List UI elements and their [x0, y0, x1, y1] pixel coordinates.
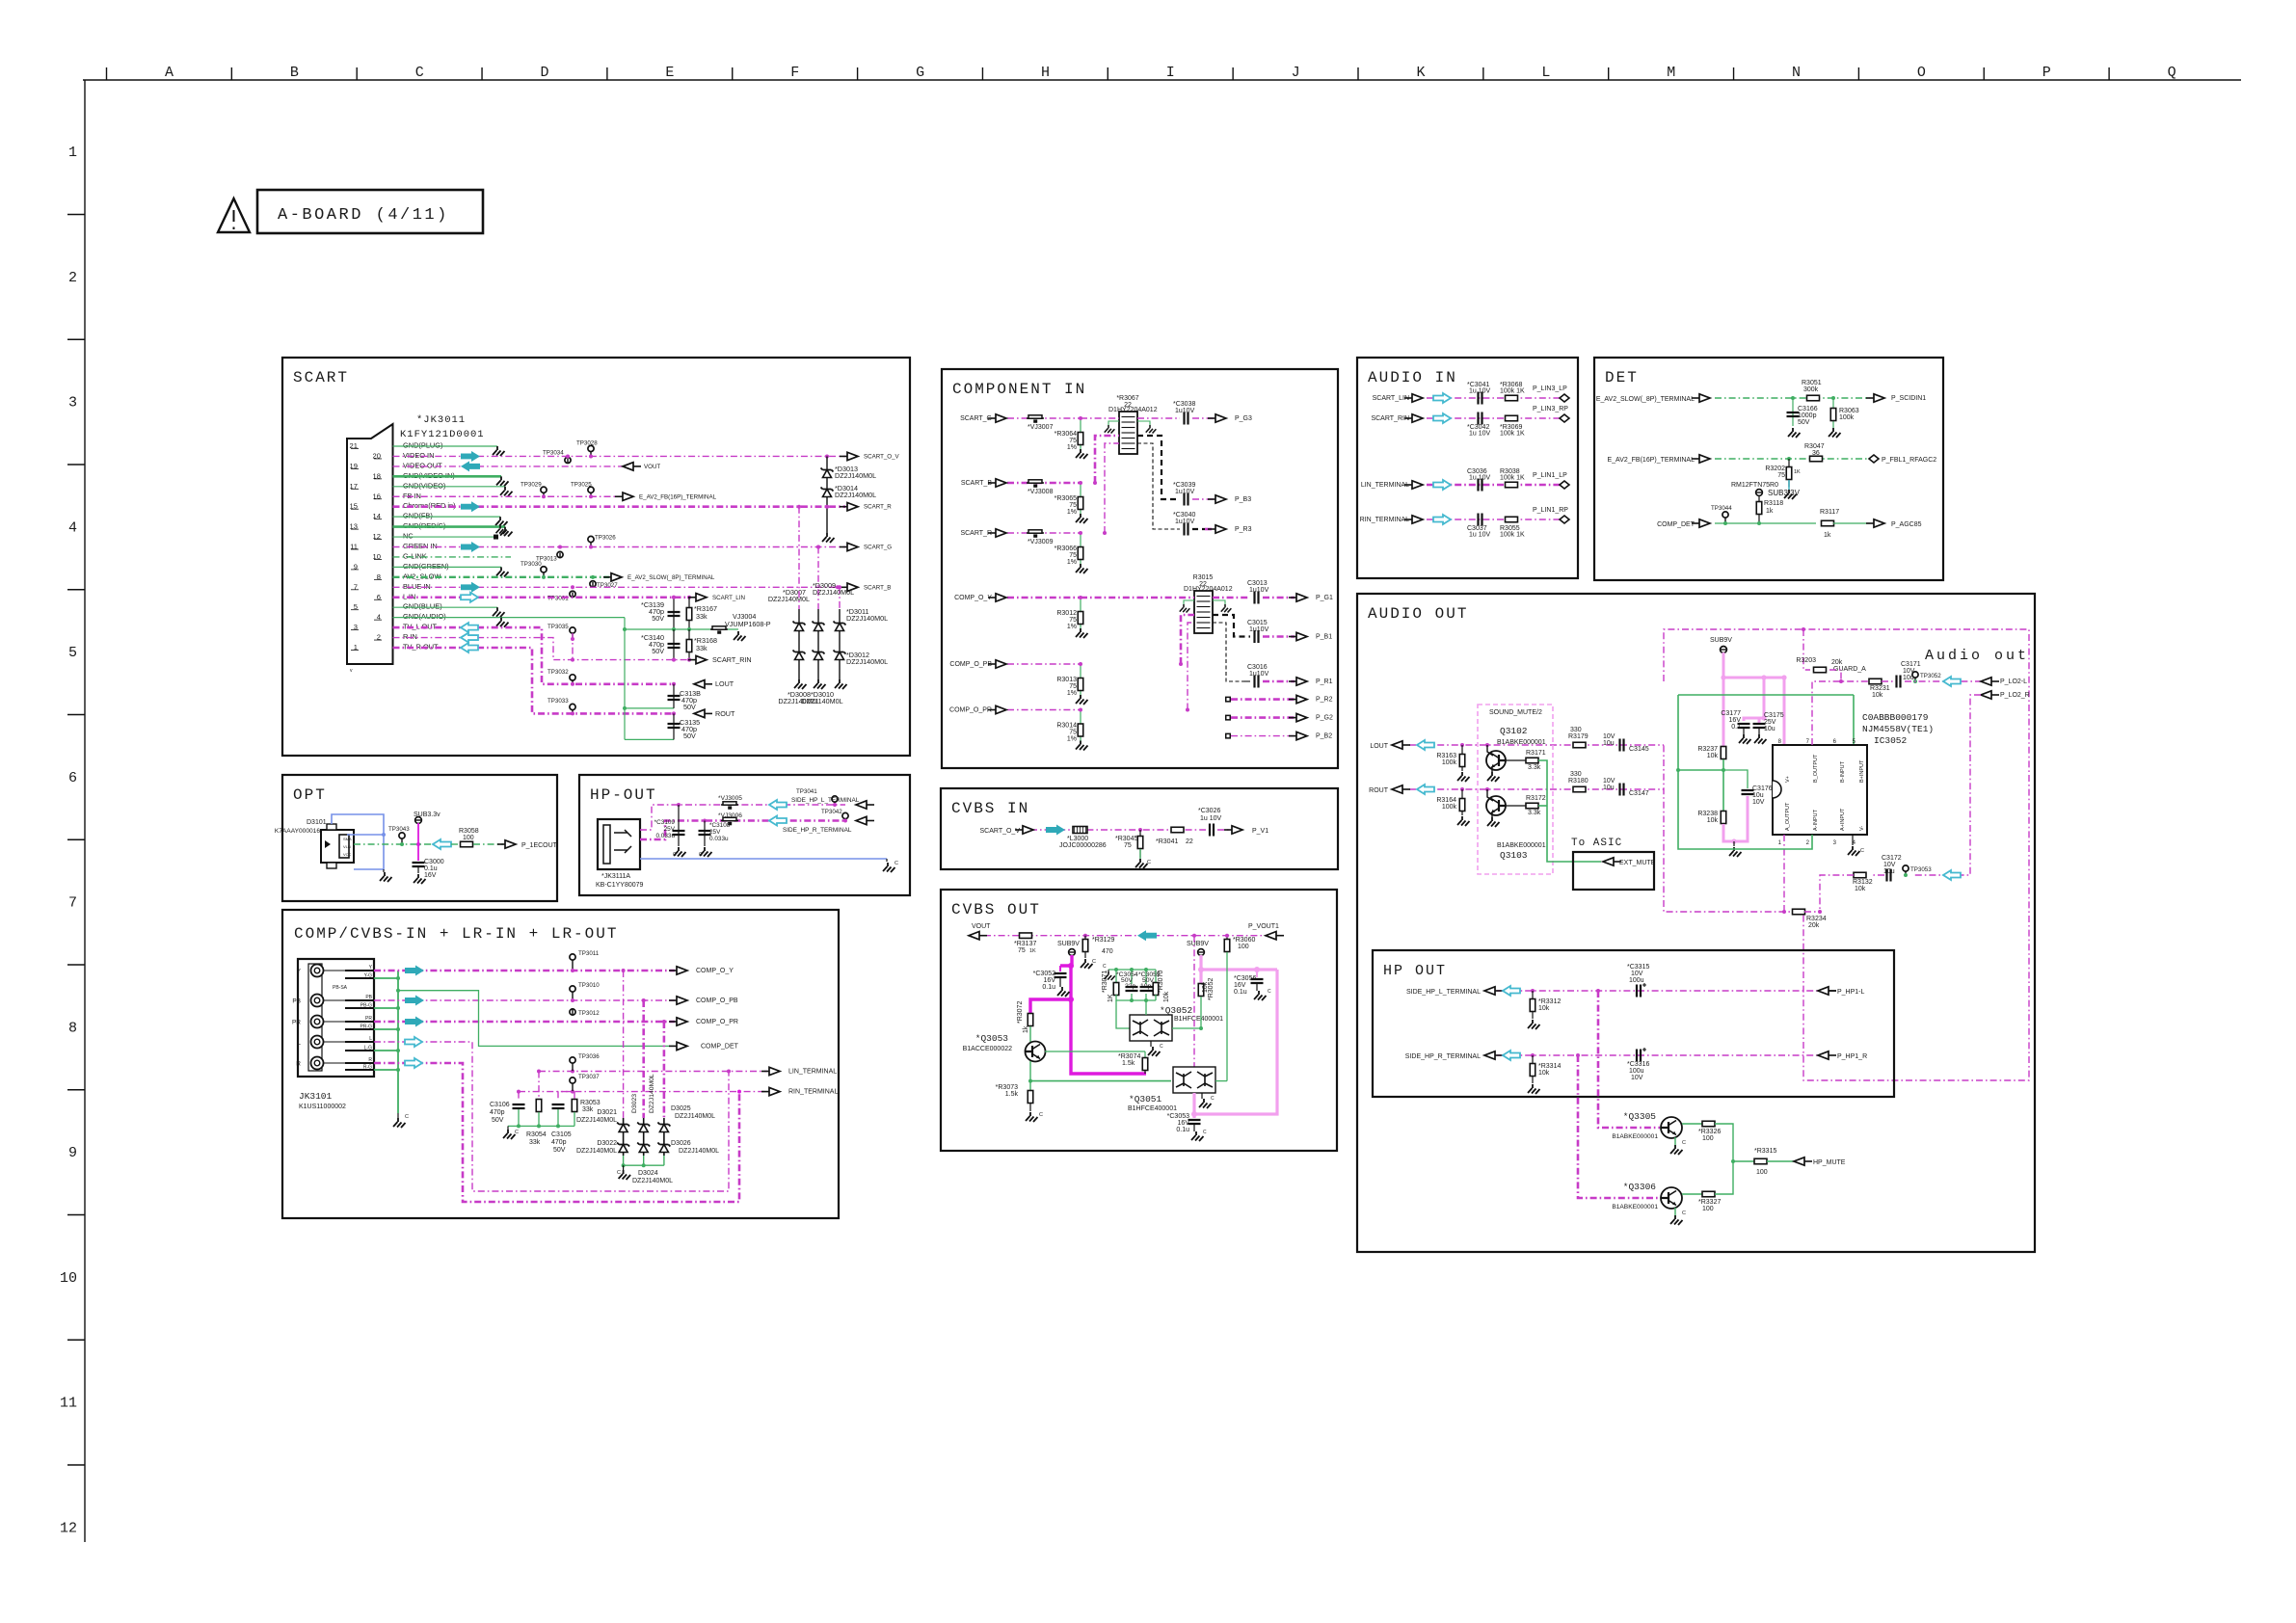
svg-text:R3238: R3238: [1697, 811, 1718, 817]
svg-text:TP3041: TP3041: [796, 788, 817, 795]
svg-text:P_B3: P_B3: [1235, 496, 1251, 503]
svg-text:JOJC00000286: JOJC00000286: [1059, 842, 1107, 849]
svg-text:B+INPUT: B+INPUT: [1859, 759, 1865, 783]
blue wire HP-OUT ground: [640, 858, 887, 860]
svg-text:TP3037: TP3037: [578, 1074, 600, 1080]
svg-text:P_G2: P_G2: [1316, 715, 1333, 722]
wire SCART_R input row: [1007, 532, 1081, 534]
jumper VJ3008: [1027, 482, 1044, 484]
svg-text:R3015: R3015: [1193, 574, 1214, 581]
RCA jack PB: [311, 995, 324, 1007]
svg-text:COMP_DET: COMP_DET: [701, 1043, 739, 1050]
wire COMP_DET row green: [1715, 522, 1816, 524]
open arrow LIN_TERMINAL: [1433, 480, 1451, 490]
wire PB row to COMP_O_PB: [374, 999, 675, 1001]
net stub P_B2: [1225, 733, 1231, 739]
capacitor C3140 470p 50V: [673, 629, 675, 660]
node EXT_MUTE: [1614, 861, 1621, 863]
COMP/CVBS-IN + LR-IN + LR-OUT section box: [282, 910, 839, 1218]
node RIN_TERMINAL: [761, 1091, 769, 1093]
node P_VOUT1: [1276, 935, 1284, 937]
svg-text:33k: 33k: [696, 612, 707, 621]
green audio ground rail in SCART: [624, 618, 626, 740]
svg-text:1k: 1k: [1766, 508, 1774, 515]
svg-text:SUB9V: SUB9V: [1710, 637, 1732, 644]
wire SCART_G drop to D3009: [817, 547, 819, 610]
ground R3314: [1528, 1084, 1540, 1094]
resistor R3070 10k: [1153, 983, 1159, 996]
svg-text:*R3071: *R3071: [1102, 971, 1108, 993]
svg-text:75: 75: [1124, 842, 1132, 849]
magenta wire SUB3.3V to C3000: [417, 823, 419, 861]
capacitor C3176 10u 10V: [1723, 770, 1748, 788]
node LIN_TERMINAL: [761, 1071, 769, 1073]
wire P_VOUT1 branch: [1194, 935, 1266, 937]
svg-text:75: 75: [1069, 683, 1077, 690]
svg-text:DZ2J140M0L: DZ2J140M0L: [632, 1178, 673, 1184]
test point TP3026: [588, 536, 594, 542]
wire pin8 AV2_SLOW green bold dash: [393, 576, 610, 578]
ground Q3306 emitter: [1674, 1208, 1676, 1215]
svg-text:ROUT: ROUT: [715, 709, 735, 718]
wire pin10 G-LINK green dash: [393, 556, 512, 558]
jumper VJ3004 VJUMP1608-P: [710, 628, 728, 630]
svg-text:75: 75: [1069, 438, 1077, 444]
svg-text:SCART_O_V: SCART_O_V: [864, 453, 900, 460]
border ruler top line: [83, 79, 2241, 81]
svg-text:*JK3011: *JK3011: [416, 414, 466, 426]
wire PB drop to D3023 bold: [642, 1000, 645, 1118]
wire SCART_LIN row: [1427, 397, 1562, 399]
svg-text:100u: 100u: [1629, 1068, 1644, 1075]
svg-text:DZ2J140M0L: DZ2J140M0L: [835, 471, 876, 480]
pink supply rail from SUB9V: [1723, 652, 1784, 745]
node P_B3: [1208, 498, 1215, 500]
svg-text:470: 470: [1102, 948, 1113, 955]
svg-text:1u 10V: 1u 10V: [1200, 815, 1222, 822]
ground R3163: [1457, 772, 1470, 782]
open arrow HP L: [1503, 986, 1520, 996]
wire HP R mute drop to Q3306: [1578, 1055, 1660, 1198]
wire P_LO2_R down to TP3053 row: [1914, 695, 1981, 875]
svg-text:C3177: C3177: [1721, 710, 1741, 717]
svg-text:A+INPUT: A+INPUT: [1840, 808, 1846, 831]
resistor R3045 75: [1138, 828, 1142, 832]
node P_LO2-L: [1991, 680, 1999, 682]
svg-text:SCART_G: SCART_G: [864, 545, 892, 551]
capacitor C3055 10p 50V: [1140, 987, 1153, 991]
svg-text:*R3073: *R3073: [996, 1084, 1018, 1091]
open arrow TP3053 row: [1943, 870, 1961, 880]
capacitor C3171 10u 10V: [1882, 680, 1894, 682]
svg-text:C3176: C3176: [1752, 785, 1773, 792]
wire R3315 to HP_MUTE: [1767, 1160, 1794, 1162]
resistor R3164 100k: [1460, 787, 1464, 791]
svg-text:330: 330: [1570, 771, 1582, 778]
wire C3026 to P_V1: [1217, 829, 1230, 831]
resistor R3327 100: [1682, 1193, 1702, 1195]
svg-text:*R3327: *R3327: [1698, 1199, 1721, 1206]
green loop to Q3052 base: [1116, 1000, 1130, 1028]
svg-text:1K: 1K: [1108, 994, 1114, 1002]
ground R3129: [1081, 959, 1093, 969]
jack signal pin names: [360, 965, 373, 1071]
svg-text:1u 10V: 1u 10V: [1469, 475, 1491, 482]
svg-text:*C3109: *C3109: [654, 819, 676, 826]
capacitor C3166 1000p 50V: [1792, 398, 1794, 426]
svg-text:BLUE IN: BLUE IN: [403, 582, 431, 591]
svg-text:To ASIC: To ASIC: [1571, 838, 1622, 849]
test point TP3041: [832, 796, 838, 802]
resistor R3065 75 1%: [1080, 483, 1081, 514]
svg-text:33k: 33k: [696, 644, 707, 652]
svg-text:R3012: R3012: [1056, 610, 1077, 617]
svg-text:SCART_LIN: SCART_LIN: [712, 595, 745, 601]
svg-text:DET: DET: [1605, 369, 1639, 386]
svg-text:TP3029: TP3029: [521, 481, 542, 488]
svg-text:C: C: [1203, 1130, 1207, 1135]
svg-text:GND(VIDEO): GND(VIDEO): [403, 481, 445, 490]
resistor *R3068 100k 1K: [1506, 395, 1518, 401]
svg-text:SCART_LIN: SCART_LIN: [1373, 395, 1409, 402]
svg-text:C: C: [894, 861, 898, 866]
wire Q3052 right pin to R3052 column: [1172, 1027, 1201, 1029]
svg-text:10V: 10V: [1603, 733, 1615, 740]
svg-text:1u10V: 1u10V: [1175, 489, 1195, 495]
svg-text:1u10V: 1u10V: [1249, 587, 1269, 594]
svg-text:*R3045: *R3045: [1115, 836, 1137, 842]
resistor R3052 10k: [1198, 984, 1204, 997]
wire pin20 VIDEO IN (SCART_O_V): [393, 455, 846, 457]
wire PR row to COMP_O_PR: [374, 1021, 675, 1024]
svg-text:C3145: C3145: [1629, 746, 1649, 753]
node P_V1: [1224, 829, 1232, 831]
wire pin7 BLUE IN (SCART_B): [393, 586, 846, 588]
wire R3015 to C3013 bold: [1213, 597, 1250, 599]
svg-text:R3203: R3203: [1796, 657, 1816, 664]
svg-text:COMP/CVBS-IN + LR-IN + LR-OUT: COMP/CVBS-IN + LR-IN + LR-OUT: [294, 925, 618, 943]
ground R3073: [1029, 1104, 1031, 1111]
svg-text:25V: 25V: [664, 826, 676, 833]
open arrow L: [405, 1037, 422, 1047]
svg-text:16V: 16V: [1044, 977, 1056, 984]
svg-text:100: 100: [1702, 1135, 1714, 1142]
svg-text:HP-OUT: HP-OUT: [590, 786, 657, 804]
wire R3072 to Q3053 base: [1029, 1026, 1031, 1042]
svg-text:AUDIO OUT: AUDIO OUT: [1368, 605, 1468, 623]
ground *D3007 column: [794, 679, 807, 689]
svg-text:A-INPUT: A-INPUT: [1813, 809, 1819, 831]
wire ROUT row: [1409, 788, 1664, 790]
svg-text:1%: 1%: [1067, 509, 1077, 516]
svg-text:0.1u: 0.1u: [1176, 1127, 1189, 1133]
svg-text:0.1u: 0.1u: [1234, 989, 1247, 996]
resistor network R3067 22 D1HY2204A012: [1119, 412, 1137, 454]
svg-text:HP_MUTE: HP_MUTE: [1813, 1159, 1846, 1166]
resistor R3117 1k: [1822, 520, 1834, 526]
capacitor C3177 0.1 16V: [1738, 724, 1750, 728]
svg-text:COMP_O_PR: COMP_O_PR: [696, 1019, 738, 1025]
ground *D3011 column: [835, 679, 847, 689]
svg-text:50V: 50V: [1798, 419, 1810, 426]
resistor R3234 20k on guard bottom: [1793, 909, 1805, 915]
wire pin3 TV_L OUT bold to LOUT row: [393, 627, 675, 684]
wire C3015 to P_B1 bold: [1263, 635, 1295, 638]
wire SCART_B to R3067 pin bold: [1095, 436, 1119, 483]
transistor Q3102 B1ABKE000001: [1486, 751, 1506, 770]
wire SCART_B input row: [1007, 482, 1081, 485]
CVBS IN section box: [941, 788, 1338, 869]
ground R3065: [1076, 514, 1088, 523]
RCA jack block JK3101 K1US11000002: [298, 959, 374, 1077]
svg-text:LOUT: LOUT: [1370, 743, 1388, 750]
wire C3038 to P_G3: [1192, 417, 1214, 419]
ground C3175: [1758, 728, 1760, 734]
wire pin6 L IN bold (SCART_LIN): [393, 596, 688, 599]
node P_R3: [1208, 528, 1215, 530]
ground pin4: [496, 618, 509, 627]
wire pin2 A-INPUT feedback green: [1678, 770, 1812, 849]
ground Q3305 emitter: [1674, 1137, 1676, 1145]
svg-text:R3014: R3014: [1056, 723, 1077, 730]
svg-text:C: C: [1211, 1096, 1215, 1102]
power SUB9V: [1721, 647, 1727, 653]
test point TP3011: [570, 954, 575, 960]
svg-text:PB: PB: [365, 995, 372, 1000]
node P_B1: [1289, 636, 1296, 638]
svg-text:Y: Y: [297, 969, 302, 975]
svg-text:3.3k: 3.3k: [1528, 810, 1541, 816]
svg-text:DZ2J140M0L: DZ2J140M0L: [576, 1148, 617, 1155]
svg-text:C: C: [1160, 1044, 1163, 1050]
wire TP3035 junction: [572, 633, 574, 660]
diode D3013 DZ2J140M0L: [826, 456, 828, 533]
ground R3063: [1829, 428, 1841, 438]
svg-text:*C3039: *C3039: [1173, 482, 1195, 489]
test point TP3035: [570, 627, 575, 633]
svg-text:10p: 10p: [1140, 983, 1152, 990]
svg-text:NJM4558V(TE1): NJM4558V(TE1): [1862, 724, 1934, 734]
diode pair column DZ2J140M0L: [643, 1118, 645, 1156]
svg-text:*C3053: *C3053: [1167, 1113, 1189, 1120]
resistor R3315 100: [1733, 1160, 1754, 1162]
svg-text:R3053: R3053: [580, 1100, 601, 1106]
terminal P_LIN3_LP: [1560, 394, 1569, 402]
svg-text:LOUT: LOUT: [715, 679, 734, 688]
svg-text:TP3044: TP3044: [1711, 505, 1732, 512]
svg-text:R-G: R-G: [363, 1065, 372, 1071]
svg-text:SCART_RIN: SCART_RIN: [1371, 415, 1409, 422]
svg-text:100u: 100u: [1629, 977, 1644, 984]
svg-text:Q: Q: [2168, 65, 2176, 81]
resistor *R3069 100k 1K: [1506, 415, 1518, 421]
ground C3056: [1256, 983, 1258, 991]
resistor R3180 330: [1573, 786, 1586, 792]
wire OPT green dash row: [354, 843, 431, 845]
HP-OUT section box: [579, 775, 910, 895]
svg-text:470p: 470p: [490, 1109, 505, 1116]
wire HP-OUT L row: [640, 805, 845, 830]
svg-text:TP3053: TP3053: [1910, 866, 1932, 873]
node P_1ECOUT: [497, 843, 505, 845]
capacitor C3037 1u 10V: [1479, 514, 1482, 526]
IC3052 pin labels: [1778, 739, 1865, 846]
svg-text:D1HY2204A012: D1HY2204A012: [1108, 407, 1158, 413]
svg-text:COMP_O_PR: COMP_O_PR: [949, 707, 992, 714]
test point TP3027: [590, 581, 596, 587]
title box A-BOARD (4/11): [257, 190, 483, 233]
svg-text:3: 3: [68, 395, 77, 412]
svg-text:16V: 16V: [1729, 717, 1742, 724]
wire R3058 to P_1ECOUT: [473, 843, 503, 845]
resistor R3326 100: [1682, 1123, 1702, 1125]
node HP_MUTE: [1804, 1160, 1812, 1162]
teal arrow VIDEO IN: [461, 451, 480, 462]
wire Q3306 collector to mute node: [1715, 1161, 1733, 1194]
jumper VJ3007: [1027, 417, 1044, 419]
svg-text:B1HFCE400001: B1HFCE400001: [1174, 1016, 1223, 1023]
svg-text:0.1u: 0.1u: [424, 865, 438, 872]
resistor R3179 330: [1573, 742, 1586, 748]
teal arrow VIDEO OUT: [461, 461, 480, 471]
svg-text:1u 10V: 1u 10V: [1469, 532, 1491, 539]
svg-text:DZ2J140M0L: DZ2J140M0L: [835, 491, 876, 499]
ground pin5: [493, 607, 505, 617]
svg-text:O: O: [1917, 65, 1926, 81]
wire E_AV2_FB(16P)_TERMINAL row green dash: [1715, 458, 1870, 460]
svg-text:*R3066: *R3066: [1055, 545, 1077, 552]
svg-text:2: 2: [68, 270, 77, 286]
jumper VJ3006: [721, 820, 738, 822]
svg-text:10k: 10k: [1538, 1070, 1550, 1077]
AUDIO IN section box: [1357, 358, 1578, 578]
resistor R3137 75 1K: [1020, 933, 1032, 939]
svg-text:D: D: [541, 65, 549, 81]
svg-text:SCART_O_V: SCART_O_V: [980, 828, 1021, 835]
svg-text:*R3137: *R3137: [1014, 941, 1036, 947]
svg-text:TP3010: TP3010: [578, 982, 600, 989]
svg-text:IC3052: IC3052: [1874, 735, 1908, 746]
resistor R3055 100k 1K: [1506, 517, 1518, 522]
svg-text:LIN_TERMINAL: LIN_TERMINAL: [1361, 482, 1409, 489]
svg-text:10u: 10u: [1883, 868, 1895, 875]
svg-text:R3118: R3118: [1764, 500, 1783, 507]
open arrow SCART_RIN: [1433, 413, 1451, 423]
svg-text:R3047: R3047: [1804, 443, 1825, 450]
node SIDE_HP_L_TERMINAL (HP-OUT): [867, 804, 874, 806]
svg-text:COMP_O_PB: COMP_O_PB: [696, 998, 738, 1004]
node P_HP1-L: [1829, 990, 1836, 992]
transistor Q3103 B1ABKE000001: [1486, 796, 1506, 815]
svg-text:75: 75: [1018, 947, 1026, 954]
capacitor C3105 470p 50V: [558, 1092, 573, 1101]
svg-text:P_G1: P_G1: [1316, 595, 1333, 601]
ground C3052: [1059, 977, 1061, 987]
wire Q3051 right pin green: [1215, 1080, 1227, 1082]
capacitor C3056 0.1u 16V: [1256, 970, 1258, 977]
capacitor C3015 1u10V: [1255, 630, 1259, 643]
ground pin21: [493, 446, 505, 456]
resistor R3053 33k: [574, 1092, 575, 1099]
wire SCART_G to R3067: [1081, 417, 1119, 419]
test point TP3030: [541, 567, 547, 572]
open arrow SCART_LIN: [1433, 393, 1451, 403]
ground pin4 V-: [1852, 835, 1854, 845]
wire SCART_R to R3067 pin: [1105, 443, 1119, 533]
svg-text:SMA: SMA: [343, 837, 352, 841]
resistor R3051 300k: [1807, 395, 1820, 401]
svg-text:C3000: C3000: [424, 859, 444, 865]
wire pin7 B_OUTPUT to L out row: [1812, 681, 1869, 745]
svg-text:0.033u: 0.033u: [709, 836, 729, 842]
node E_AV2_SLOW(_8P)_TERMINAL: [603, 576, 611, 578]
svg-text:*C3315: *C3315: [1627, 964, 1649, 971]
wire SCART_B drop to D3011: [839, 587, 841, 609]
svg-text:C: C: [699, 852, 703, 858]
wire pin17 GND(VIDEO): [393, 486, 506, 488]
ground green rail: [1108, 970, 1109, 971]
resistor R3064 75 1%: [1080, 418, 1081, 449]
svg-text:50V: 50V: [683, 732, 696, 740]
svg-text:*C3108: *C3108: [709, 822, 731, 829]
capacitor C3053 0.1u 16V: [1188, 1120, 1201, 1124]
svg-text:N: N: [1792, 65, 1801, 81]
net stub P_R2: [1225, 697, 1231, 703]
svg-text:TP3052: TP3052: [1920, 673, 1941, 679]
svg-text:20k: 20k: [1808, 922, 1820, 929]
svg-text:R3237: R3237: [1697, 746, 1718, 753]
wire pin16 FB IN: [393, 495, 622, 497]
resistor R3058 100: [451, 843, 460, 845]
resistor R3163 100k: [1460, 743, 1464, 747]
OPT section box: [282, 775, 557, 901]
test point TP3052: [1912, 672, 1918, 678]
open arrow P_LO2-L: [1943, 677, 1961, 686]
ground pin14: [495, 517, 508, 526]
svg-text:P_LIN1_RP: P_LIN1_RP: [1533, 507, 1568, 514]
svg-text:G-LINK: G-LINK: [403, 551, 427, 560]
svg-text:C3166: C3166: [1798, 406, 1818, 412]
svg-text:DZ2J140M0L: DZ2J140M0L: [813, 588, 854, 597]
open arrow LOUT: [1417, 740, 1434, 750]
wire pin21 GND(PLUG) to ground: [393, 445, 498, 447]
wire TP3052 to P_LO2-L: [1905, 680, 1981, 682]
wire C3016 to P_R1 bold: [1243, 680, 1250, 682]
wire SCART_RIN row: [1427, 417, 1562, 419]
svg-text:I: I: [1166, 65, 1175, 81]
svg-text:VOUT: VOUT: [644, 464, 660, 470]
open arrow TV_L OUT: [461, 623, 478, 632]
svg-text:GND(GREEN): GND(GREEN): [403, 562, 449, 571]
capacitor *C3042 1u 10V: [1479, 412, 1482, 425]
CVBS OUT section box: [941, 890, 1337, 1151]
svg-text:P_LIN1_LP: P_LIN1_LP: [1533, 472, 1567, 479]
svg-text:B: B: [290, 65, 299, 81]
svg-text:P_LO2_R: P_LO2_R: [2000, 692, 2030, 699]
node P_SCIDIN1: [1866, 397, 1874, 399]
node LOUT: [705, 683, 712, 685]
svg-text:R IN: R IN: [403, 632, 417, 641]
svg-text:DZ2J140M0L: DZ2J140M0L: [675, 1113, 715, 1120]
svg-text:L: L: [369, 1036, 372, 1042]
test point TP3032: [570, 675, 575, 680]
svg-text:10k: 10k: [1538, 1005, 1550, 1012]
svg-text:R3164: R3164: [1436, 797, 1456, 804]
wire R3060 down green: [1226, 952, 1228, 1081]
transistor Q3306 B1ABKE000001: [1661, 1187, 1682, 1209]
svg-text:C: C: [1682, 1211, 1686, 1216]
svg-text:C: C: [1103, 964, 1107, 970]
